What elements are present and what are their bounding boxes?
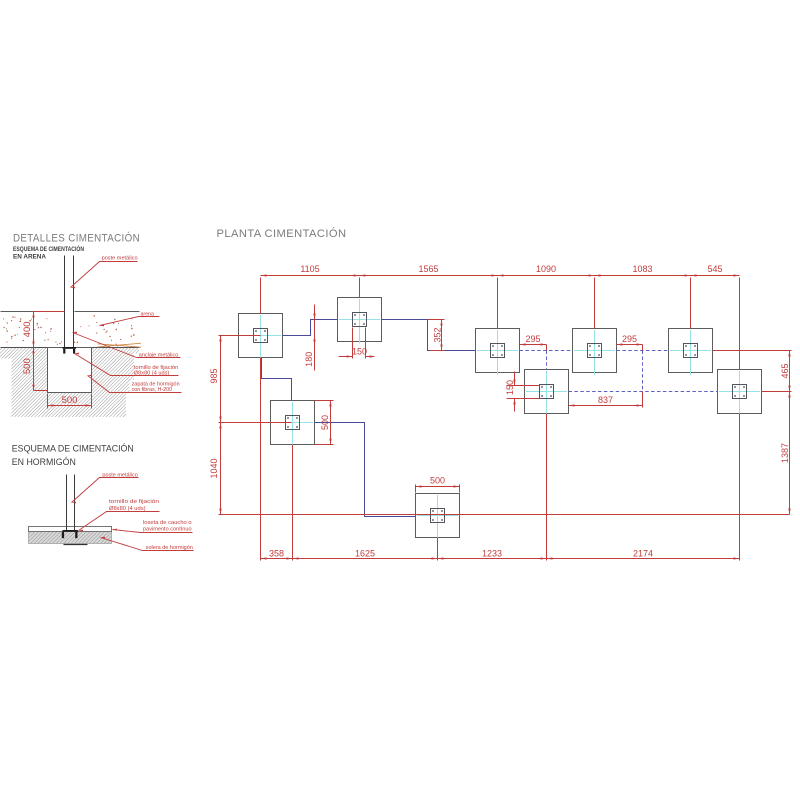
svg-text:180: 180	[304, 352, 314, 367]
solera dark bottom segment	[64, 544, 88, 546]
svg-text:PLANTA CIMENTACIÓN: PLANTA CIMENTACIÓN	[217, 227, 347, 240]
dim 295 second	[617, 344, 643, 346]
svg-text:295: 295	[622, 334, 637, 344]
svg-text:ESQUEMA DE CIMENTACIÓN: ESQUEMA DE CIMENTACIÓN	[12, 443, 134, 454]
svg-text:150: 150	[352, 347, 367, 357]
svg-text:150: 150	[505, 380, 515, 395]
bottom dim chain	[261, 558, 740, 560]
poste metalico post section d2	[66, 475, 68, 531]
svg-text:1565: 1565	[418, 264, 438, 274]
dashed wire F6-F9	[569, 391, 718, 393]
svg-text:295: 295	[525, 334, 540, 344]
anchor plate d2	[63, 530, 78, 532]
svg-text:solera de hormigón: solera de hormigón	[146, 545, 193, 551]
svg-text:tornillo de fijación: tornillo de fijación	[109, 499, 159, 505]
solera de hormigon slab hatch	[29, 532, 112, 544]
svg-text:545: 545	[707, 264, 722, 274]
svg-text:500: 500	[320, 415, 330, 430]
dim 150 under F2	[352, 328, 354, 359]
svg-text:465: 465	[780, 363, 790, 378]
svg-text:1090: 1090	[536, 264, 556, 274]
wire F3-F4	[315, 423, 416, 517]
right dim chain	[789, 351, 791, 515]
dim 180	[314, 305, 316, 371]
svg-text:2174: 2174	[633, 548, 653, 558]
svg-text:500: 500	[430, 476, 445, 486]
svg-text:1040: 1040	[209, 458, 219, 478]
svg-text:837: 837	[598, 395, 613, 405]
orange break mark	[98, 343, 142, 347]
svg-text:500: 500	[62, 395, 78, 406]
sand surface line	[1, 311, 65, 313]
footing F1 plan	[239, 314, 283, 360]
svg-text:1625: 1625	[355, 548, 375, 558]
svg-text:1233: 1233	[482, 548, 502, 558]
dim 500 above F4	[415, 485, 417, 493]
svg-text:EN HORMIGÓN: EN HORMIGÓN	[12, 456, 76, 467]
zapata footing section	[48, 348, 92, 393]
svg-text:poste metálico: poste metálico	[102, 255, 138, 261]
svg-text:400: 400	[22, 321, 33, 337]
dashed drop to F6	[546, 351, 548, 370]
dim 500 footing width	[47, 394, 49, 409]
svg-text:500: 500	[22, 358, 33, 374]
dim 352	[428, 319, 445, 321]
dashed wire F7-F8	[617, 350, 669, 352]
dim 295 first	[520, 344, 547, 346]
svg-text:pavimento contínuo: pavimento contínuo	[143, 527, 192, 533]
svg-text:1105: 1105	[300, 264, 319, 274]
dashed wire F5-F7	[520, 350, 573, 352]
sand speckles (arena fill)	[45, 317, 48, 320]
svg-text:358: 358	[269, 548, 284, 558]
anchor bolts d1	[63, 349, 65, 354]
footing F2 plan	[338, 298, 382, 344]
dim 837	[569, 405, 643, 407]
svg-text:loseta de caucho o: loseta de caucho o	[143, 520, 192, 526]
dashed drop mid	[642, 351, 644, 392]
anchor plate d1	[63, 347, 77, 349]
earth top line	[1, 347, 140, 349]
wire F1-F2	[283, 320, 338, 336]
footing F8 plan	[669, 329, 713, 375]
footing F3 plan	[271, 401, 315, 447]
wire F1-F3	[262, 358, 292, 401]
svg-text:1083: 1083	[632, 264, 652, 274]
poste metalico post section d1	[64, 256, 66, 348]
svg-text:ESQUEMA DE CIMENTACIÓN: ESQUEMA DE CIMENTACIÓN	[13, 244, 84, 253]
dim 500 footing depth	[33, 348, 35, 391]
footing F4 plan	[416, 494, 460, 540]
svg-text:DETALLES CIMENTACIÓN: DETALLES CIMENTACIÓN	[13, 232, 140, 245]
left dim chain	[220, 336, 222, 515]
svg-text:985: 985	[209, 368, 219, 383]
svg-text:352: 352	[432, 327, 442, 342]
footing F7 plan	[573, 329, 617, 375]
wire F2-F5	[382, 320, 476, 351]
footing F6 plan	[525, 370, 569, 416]
dim 400 sand depth	[33, 312, 35, 348]
anchor bolts d2	[62, 532, 64, 538]
hatched earth (ground section)	[0, 348, 139, 417]
footing F9 plan	[718, 370, 762, 416]
svg-text:1387: 1387	[780, 443, 790, 463]
dim 500 at F3	[315, 400, 334, 402]
footing F5 plan	[476, 329, 520, 375]
top dim chain	[261, 275, 740, 277]
dim 150 at F6	[507, 385, 540, 387]
loseta top slab	[29, 527, 112, 532]
svg-text:EN ARENA: EN ARENA	[13, 253, 46, 260]
long datum line	[219, 514, 790, 516]
